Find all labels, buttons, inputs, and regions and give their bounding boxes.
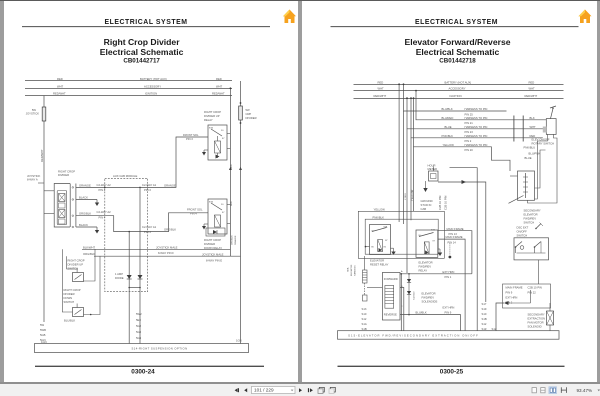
svg-text:85: 85 (383, 247, 386, 249)
svg-text:PIN 3: PIN 3 (144, 188, 151, 192)
diode D2 (138, 275, 143, 279)
svg-text:87A: 87A (431, 228, 435, 231)
wire sea harness to solenoid B (367, 287, 382, 289)
vertical feed wires to relays (398, 84, 400, 222)
svg-text:ORG/BLK: ORG/BLK (231, 235, 233, 245)
svg-text:HOUR: HOUR (427, 164, 435, 168)
svg-text:87: 87 (432, 240, 435, 242)
svg-text:PIN 23: PIN 23 (464, 130, 473, 134)
svg-text:PIN 1: PIN 1 (444, 275, 451, 279)
svg-text:5W2: 5W2 (136, 312, 142, 316)
wire hour meter right with arrow (438, 180, 486, 302)
svg-text:PIN 25: PIN 25 (464, 112, 473, 116)
svg-text:FAN MOTOR: FAN MOTOR (527, 321, 543, 325)
svg-text:S1B: S1B (481, 317, 486, 321)
module wire vertical 1 (128, 232, 130, 344)
svg-text:ELEVATOR: ELEVATOR (418, 261, 432, 265)
harness wire 2 (416, 91, 546, 126)
svg-text:DIVIDER UP: DIVIDER UP (204, 114, 220, 118)
svg-text:S19: S19 (481, 307, 486, 311)
svg-text:DIVIDER: DIVIDER (58, 173, 69, 177)
svg-text:ELEVATOR: ELEVATOR (523, 213, 537, 217)
junction dots bus (402, 83, 404, 85)
svg-text:0300-24: 0300-24 (131, 369, 155, 376)
left page (4, 1, 298, 382)
svg-text:BLUE: BLUE (444, 125, 451, 129)
bus wire accessory (353, 90, 563, 92)
switch S1 up (67, 249, 95, 281)
svg-text:87: 87 (222, 212, 225, 214)
home icon (578, 10, 591, 24)
svg-text:BLUE: BLUE (524, 156, 531, 160)
svg-text:PIN 4: PIN 4 (144, 230, 151, 234)
svg-text:HARNESS TO PIN: HARNESS TO PIN (464, 143, 487, 147)
svg-text:PIN 20: PIN 20 (464, 148, 473, 152)
svg-text:PIN 3: PIN 3 (186, 137, 193, 141)
svg-text:A: A (401, 270, 403, 273)
svg-text:BLK: BLK (529, 116, 534, 120)
svg-text:YELLOW: YELLOW (373, 207, 385, 211)
svg-text:YELLOW: YELLOW (442, 143, 454, 147)
header underline (22, 26, 270, 28)
svg-text:METER: METER (427, 167, 437, 171)
svg-text:HARNESS TO PIN: HARNESS TO PIN (464, 107, 487, 111)
svg-text:5G2: 5G2 (136, 324, 142, 328)
option bus box right page (337, 331, 559, 340)
svg-text:86: 86 (371, 247, 374, 249)
svg-text:RED: RED (57, 77, 63, 81)
svg-text:ELEVATOR: ELEVATOR (421, 291, 435, 295)
svg-text:Right Crop Divider: Right Crop Divider (104, 37, 181, 47)
wire from rotary switch down (523, 134, 557, 203)
svg-text:87A: 87A (383, 225, 387, 228)
svg-text:SEA: SEA (346, 267, 349, 272)
wire orange (76, 186, 163, 188)
wire to S net vertical (449, 168, 477, 331)
svg-text:S13: S13 (361, 307, 366, 311)
toggle glyph (535, 223, 543, 230)
svg-text:SOLENOID: SOLENOID (527, 325, 541, 329)
svg-text:RESET RELAY: RESET RELAY (370, 263, 389, 267)
next page button (299, 388, 302, 392)
svg-text:RIGHT CROP: RIGHT CROP (204, 238, 221, 242)
svg-text:8-WAY PIN E: 8-WAY PIN E (206, 258, 222, 262)
svg-text:30: 30 (221, 204, 224, 206)
facing pages icon active (549, 387, 557, 394)
wire switch to pin table (537, 260, 539, 284)
continuous page icon (541, 388, 545, 393)
svg-text:PIN 9: PIN 9 (444, 310, 451, 314)
svg-text:RED: RED (377, 80, 383, 84)
switch S2 down (62, 249, 100, 316)
svg-text:FRONT SOL: FRONT SOL (183, 133, 199, 137)
svg-text:IGNITION: IGNITION (449, 94, 461, 98)
svg-text:RED/WHT: RED/WHT (53, 92, 66, 96)
zoom dropdown cut (598, 390, 600, 392)
next view icon (329, 387, 335, 393)
svg-text:SECONDARY: SECONDARY (527, 313, 544, 317)
svg-text:ACCESSORY: ACCESSORY (144, 84, 161, 88)
svg-text:BATTERY (HOT AUX): BATTERY (HOT AUX) (140, 77, 167, 81)
wire org/blk (76, 216, 163, 232)
svg-text:JOYSTICK MALE: JOYSTICK MALE (202, 252, 224, 256)
wire front sol pin 4 (163, 208, 208, 232)
previous page button (244, 388, 247, 392)
relay K3 elevator reset (364, 225, 390, 255)
svg-text:JOYSTICK: JOYSTICK (26, 112, 39, 116)
svg-text:DIVIDER: DIVIDER (64, 292, 75, 296)
svg-text:C2-WAY A2: C2-WAY A2 (97, 210, 112, 214)
wire org/blk joystick male E (83, 252, 241, 262)
harness wire 4 (411, 98, 543, 143)
svg-text:FWD/REV: FWD/REV (523, 217, 536, 221)
ground relay K1 (202, 150, 206, 156)
ground 1 (95, 200, 99, 207)
svg-text:ELEVATOR: ELEVATOR (350, 264, 353, 276)
svg-text:JOYSTICK: JOYSTICK (27, 174, 40, 178)
svg-text:87A: 87A (209, 127, 213, 130)
diode D1 (115, 272, 132, 280)
svg-text:DIVIDER: DIVIDER (204, 242, 215, 246)
svg-text:BLACK: BLACK (79, 196, 88, 200)
svg-text:REVERSE: REVERSE (383, 313, 396, 317)
svg-text:WHT: WHT (57, 84, 64, 88)
svg-text:CB01442717: CB01442717 (123, 58, 160, 65)
ground stud in cab (420, 181, 432, 211)
main frame c2b pin table (502, 284, 550, 308)
svg-text:DSC EXT: DSC EXT (516, 226, 528, 230)
svg-text:5W: 5W (246, 108, 251, 112)
svg-text:5WB: 5WB (40, 328, 46, 332)
svg-text:C2-WAY A1: C2-WAY A1 (142, 183, 157, 187)
relay socket outline outer (358, 207, 444, 258)
svg-text:S14-RIGHT SUSPENSION OPTION: S14-RIGHT SUSPENSION OPTION (131, 347, 187, 351)
svg-text:BLU/BLK: BLU/BLK (415, 311, 426, 315)
junction chevron marks (229, 167, 232, 170)
ground relay K2 (202, 224, 206, 230)
header underline (330, 26, 578, 28)
svg-text:HARNESS: HARNESS (353, 265, 356, 276)
harness wire 1 (403, 84, 506, 116)
svg-text:PIN 22: PIN 22 (527, 291, 536, 295)
svg-text:8-WAY A: 8-WAY A (27, 178, 38, 182)
svg-text:RIGHT CROP: RIGHT CROP (68, 259, 85, 263)
relay K2 right crop divider down (204, 199, 227, 236)
svg-text:S12: S12 (361, 317, 366, 321)
harness wire 5 (413, 98, 510, 171)
hour meter M1 (427, 164, 438, 181)
svg-text:BLACK: BLACK (79, 223, 88, 227)
svg-text:PIN 14: PIN 14 (447, 240, 456, 244)
svg-text:RIGHT CROP: RIGHT CROP (204, 110, 221, 114)
svg-text:1GN: 1GN (236, 339, 242, 343)
bus wire battery (25, 80, 232, 82)
svg-text:BLU/PNK: BLU/PNK (528, 152, 540, 156)
wire table to option bus (496, 303, 504, 331)
svg-text:SWITCH: SWITCH (64, 300, 75, 304)
svg-text:RED: RED (528, 80, 534, 84)
left page svg (4, 1, 298, 382)
sea elevator harness connector (346, 256, 367, 301)
right page svg (302, 1, 598, 382)
bus wire battery (353, 84, 563, 86)
secondary elevator fwd/rev switch (508, 171, 534, 203)
svg-text:30: 30 (221, 130, 224, 132)
vertical wire relay chain (229, 88, 231, 256)
svg-text:ON/OFF: ON/OFF (516, 230, 527, 234)
svg-text:PIN 21: PIN 21 (464, 121, 473, 125)
svg-text:SOLENOIDS: SOLENOIDS (421, 299, 437, 303)
harness wire 3 (407, 98, 546, 134)
svg-text:RED/WHT: RED/WHT (212, 92, 225, 96)
svg-text:C2B 10 PIN: C2B 10 PIN (438, 196, 442, 210)
diode column (406, 273, 415, 315)
svg-text:DOWN: DOWN (64, 296, 73, 300)
svg-text:C2B 10 PIN: C2B 10 PIN (443, 196, 447, 210)
svg-text:1 AMP: 1 AMP (115, 272, 123, 276)
solenoid block forward/reverse (382, 270, 403, 320)
svg-text:ELECTRICAL SYSTEM: ELECTRICAL SYSTEM (414, 19, 497, 26)
relay K1 pin stubs (227, 132, 230, 134)
svg-text:S12 B10: S12 B10 (413, 291, 415, 300)
svg-text:RED/WHT: RED/WHT (524, 94, 537, 98)
svg-text:PIN 3: PIN 3 (99, 188, 106, 192)
svg-text:JOYSTICK MALE: JOYSTICK MALE (156, 245, 178, 249)
svg-text:RIGHT CROP: RIGHT CROP (58, 170, 75, 174)
svg-text:Elevator Forward/Reverse: Elevator Forward/Reverse (404, 37, 510, 47)
svg-text:BLK/WHT: BLK/WHT (83, 245, 95, 249)
svg-text:8-WAY PIN F: 8-WAY PIN F (158, 251, 174, 255)
wire black to ground 2 (76, 226, 97, 228)
connector SW crop divider right (239, 81, 257, 344)
svg-text:5E0: 5E0 (136, 318, 141, 322)
wire blk/wht joystick male F (82, 245, 230, 255)
svg-text:PIN 4: PIN 4 (190, 212, 197, 216)
svg-text:BATTERY (HOT AUX): BATTERY (HOT AUX) (444, 80, 471, 84)
svg-text:MAIN FRAME: MAIN FRAME (505, 286, 522, 290)
svg-text:DIVIDER UP: DIVIDER UP (68, 263, 84, 267)
relay K1 right crop divider up (204, 110, 227, 160)
wire black to ground 1 (76, 199, 97, 201)
svg-text:PIN 4: PIN 4 (99, 216, 106, 220)
connector C1 bars (513, 116, 535, 142)
dsc ext on/off switch (514, 226, 549, 260)
svg-text:S10: S10 (481, 312, 486, 316)
fit width icon (561, 387, 566, 393)
svg-text:ACCESSORY: ACCESSORY (448, 87, 465, 91)
bus wire accessory (25, 88, 232, 90)
svg-text:FWD/REV: FWD/REV (421, 295, 434, 299)
junction dots (128, 287, 130, 289)
svg-text:RIGHT CROP: RIGHT CROP (64, 288, 81, 292)
svg-text:ORANGE: ORANGE (164, 183, 176, 187)
svg-text:5W: 5W (40, 323, 45, 327)
svg-text:ORANGE: ORANGE (234, 235, 237, 245)
svg-text:PIN 2: PIN 2 (464, 139, 471, 143)
relay K2 pin stubs (227, 203, 230, 205)
svg-text:87A: 87A (209, 201, 213, 204)
svg-text:0300-25: 0300-25 (439, 369, 463, 376)
wire ext hrn pin 1 (400, 270, 472, 279)
svg-text:WHT: WHT (377, 87, 384, 91)
svg-text:C2-WAY A1: C2-WAY A1 (142, 225, 157, 229)
wire ext hrn pin 9 (400, 305, 461, 330)
svg-text:RED: RED (529, 134, 535, 138)
connector SW joystick (42, 107, 46, 121)
wire solenoid B drop (400, 288, 404, 331)
svg-text:S15-ELEVATOR FWD/REV/SECONDARY: S15-ELEVATOR FWD/REV/SECONDARY EXTRACTIO… (348, 334, 479, 338)
previous view icon (318, 387, 324, 393)
svg-text:CRP: CRP (246, 112, 252, 116)
module wire vertical 2 (139, 187, 141, 343)
aux cab module dashed box (105, 178, 148, 291)
svg-text:CAB: CAB (420, 207, 426, 211)
secondary extraction fan motor solenoid (527, 303, 553, 331)
svg-text:SWITCH: SWITCH (68, 267, 79, 271)
svg-text:5GB: 5GB (40, 333, 46, 337)
svg-text:5G9: 5G9 (136, 336, 142, 340)
svg-text:WHT: WHT (528, 87, 535, 91)
svg-text:ORG/BLK: ORG/BLK (83, 252, 95, 256)
svg-text:MAIN FRAME: MAIN FRAME (446, 227, 463, 231)
page number box (252, 386, 296, 393)
svg-text:FWD/REV: FWD/REV (418, 265, 431, 269)
svg-text:BLU/BLK: BLU/BLK (64, 318, 75, 322)
svg-text:5G0: 5G0 (136, 330, 142, 334)
bus wire ignition (353, 98, 563, 100)
svg-text:PIN 9: PIN 9 (505, 291, 512, 295)
ground relay K3 (390, 248, 395, 255)
wire main frame pin 14 (437, 235, 464, 331)
svg-text:SECONDARY: SECONDARY (523, 209, 540, 213)
svg-text:IGNITION: IGNITION (145, 92, 157, 96)
bus wire ignition (25, 95, 232, 97)
bottom toolbar (0, 382, 600, 396)
svg-text:EXT HRN: EXT HRN (505, 296, 517, 300)
wire main frame pin 13 (437, 227, 471, 274)
single page icon (532, 388, 536, 393)
svg-text:RED/WHT: RED/WHT (40, 149, 44, 162)
ground relay K4 (437, 249, 441, 256)
svg-text:FORWARD: FORWARD (383, 277, 397, 281)
wire diode bottoms join (129, 287, 140, 289)
svg-text:101 / 229: 101 / 229 (254, 388, 274, 393)
svg-text:ELEVATOR: ELEVATOR (370, 259, 384, 263)
svg-text:Electrical Schematic: Electrical Schematic (100, 47, 184, 57)
svg-text:ORG/BLK: ORG/BLK (79, 212, 91, 216)
svg-text:EXTRACTION: EXTRACTION (527, 317, 545, 321)
svg-text:93.47%: 93.47% (577, 388, 593, 393)
svg-text:BLU/BLK: BLU/BLK (441, 107, 452, 111)
footer line (337, 365, 564, 367)
svg-text:PNK/BLK: PNK/BLK (372, 215, 384, 219)
svg-text:C2B 10 PIN: C2B 10 PIN (527, 286, 541, 290)
svg-text:WHT: WHT (529, 125, 536, 129)
svg-text:AUX CAB MODULE: AUX CAB MODULE (113, 174, 138, 178)
svg-text:HARNESS TO PIN: HARNESS TO PIN (464, 116, 487, 120)
svg-text:Electrical Schematic: Electrical Schematic (415, 47, 499, 57)
svg-text:HARNESS TO PIN: HARNESS TO PIN (464, 125, 487, 129)
svg-text:S12: S12 (481, 322, 486, 326)
svg-text:ORANGE: ORANGE (79, 183, 91, 187)
svg-text:STUD IN: STUD IN (420, 203, 431, 207)
wire down left to option box (43, 250, 45, 322)
svg-text:S10: S10 (361, 312, 366, 316)
last page button (308, 388, 313, 392)
svg-text:FRONT SOL: FRONT SOL (187, 208, 203, 212)
footer line (35, 365, 264, 367)
right page (302, 1, 598, 382)
svg-text:RED: RED (231, 201, 233, 206)
svg-text:EXT HRN: EXT HRN (442, 305, 454, 309)
option bus box (35, 344, 249, 353)
svg-text:PNK/BLU: PNK/BLU (523, 146, 535, 150)
svg-text:DIVIDER: DIVIDER (246, 116, 257, 120)
svg-text:RED: RED (216, 77, 222, 81)
relay socket outline inner (365, 215, 438, 254)
svg-text:ROTARY SWITCH: ROTARY SWITCH (531, 142, 554, 146)
wire solenoid A drop (400, 273, 402, 331)
svg-text:MAIN FRAME: MAIN FRAME (445, 235, 462, 239)
top dark edge (0, 0, 600, 1)
svg-text:CB01442718: CB01442718 (439, 58, 476, 65)
home icon (283, 10, 296, 24)
connector J1 joystick (44, 184, 76, 228)
svg-text:SWITCH: SWITCH (516, 234, 527, 238)
svg-text:S1A: S1A (361, 322, 366, 326)
svg-text:RELAY: RELAY (418, 269, 427, 273)
svg-text:EXT HRN: EXT HRN (442, 270, 454, 274)
svg-text:RED: RED (231, 164, 233, 169)
first page button (235, 388, 239, 392)
svg-text:RELAY: RELAY (204, 118, 213, 122)
wire front sol pin 3 (163, 133, 208, 187)
svg-text:RED/WHT: RED/WHT (373, 94, 386, 98)
rotary switch S3 (542, 106, 555, 134)
svg-text:C2-WAY A2: C2-WAY A2 (97, 183, 112, 187)
svg-text:WHT: WHT (216, 84, 223, 88)
svg-text:HARNESS TO PIN: HARNESS TO PIN (464, 134, 487, 138)
svg-text:GROUND: GROUND (420, 199, 432, 203)
svg-text:87: 87 (222, 138, 225, 140)
svg-text:S17: S17 (481, 302, 486, 306)
svg-text:Y-ORG: Y-ORG (405, 193, 407, 200)
ground 2 (95, 227, 99, 234)
dotted stub with junction (448, 243, 451, 258)
svg-text:PNK/BLK: PNK/BLK (441, 134, 453, 138)
svg-text:5W: 5W (32, 108, 37, 112)
svg-text:87: 87 (385, 240, 388, 242)
svg-text:BLU/RED: BLU/RED (441, 116, 453, 120)
svg-text:ELECTRICAL SYSTEM: ELECTRICAL SYSTEM (104, 19, 187, 26)
svg-text:SWITCH: SWITCH (523, 221, 534, 225)
wire left joystick feed (43, 96, 45, 250)
relay K4 elevator fwd/rev (416, 228, 438, 257)
svg-text:DIODE: DIODE (115, 276, 124, 280)
svg-text:ORG/BLK: ORG/BLK (164, 228, 176, 232)
